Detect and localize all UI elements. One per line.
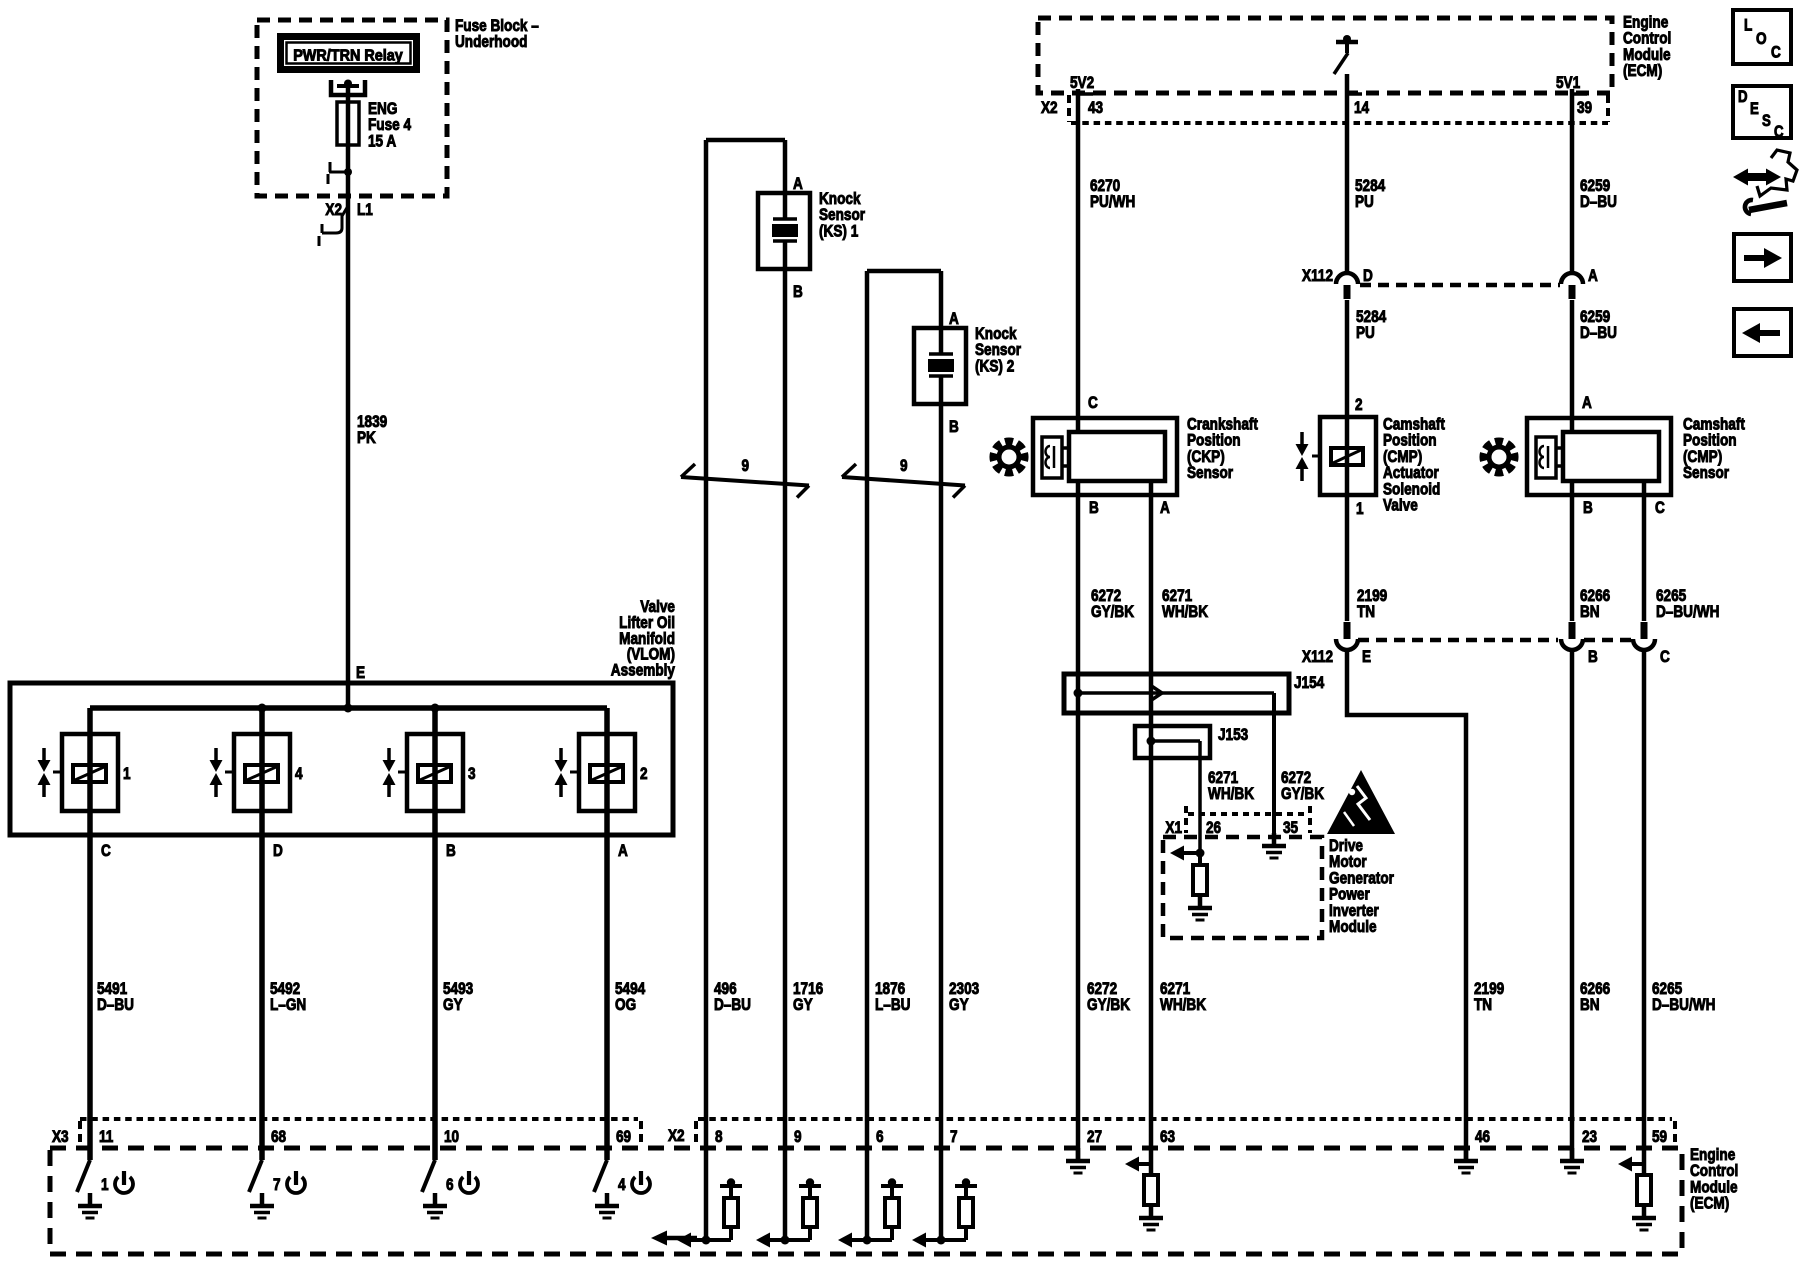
svg-text:PU/WH: PU/WH: [1090, 193, 1135, 212]
svg-text:26: 26: [1206, 819, 1221, 838]
svg-text:J154: J154: [1294, 674, 1325, 693]
svg-text:5V2: 5V2: [1070, 74, 1094, 93]
svg-text:Sensor: Sensor: [1683, 464, 1729, 483]
svg-text:9: 9: [900, 457, 908, 476]
svg-text:L–GN: L–GN: [270, 996, 306, 1015]
svg-text:10: 10: [444, 1128, 459, 1147]
svg-text:(KS) 1: (KS) 1: [819, 222, 859, 241]
svg-text:46: 46: [1475, 1128, 1490, 1147]
svg-text:C: C: [1660, 648, 1670, 667]
svg-text:B: B: [446, 842, 456, 861]
svg-text:C: C: [1774, 123, 1784, 142]
svg-text:BN: BN: [1580, 996, 1600, 1015]
svg-text:PWR/TRN Relay: PWR/TRN Relay: [293, 47, 403, 65]
svg-text:WH/BK: WH/BK: [1160, 996, 1206, 1015]
svg-text:Valve: Valve: [1383, 496, 1418, 515]
svg-text:C: C: [1655, 499, 1665, 518]
svg-text:OG: OG: [615, 996, 636, 1015]
svg-text:A: A: [1588, 267, 1598, 286]
svg-text:D–BU: D–BU: [714, 996, 751, 1015]
svg-text:GY/BK: GY/BK: [1087, 996, 1130, 1015]
svg-text:5V1: 5V1: [1556, 74, 1581, 93]
svg-text:14: 14: [1354, 99, 1370, 118]
svg-text:BN: BN: [1580, 603, 1600, 622]
svg-text:39: 39: [1577, 99, 1592, 118]
svg-text:GY/BK: GY/BK: [1091, 603, 1134, 622]
svg-text:PU: PU: [1356, 324, 1375, 343]
svg-text:35: 35: [1283, 819, 1299, 838]
svg-text:B: B: [1089, 499, 1099, 518]
svg-text:B: B: [1588, 648, 1598, 667]
svg-text:D–BU: D–BU: [1580, 324, 1617, 343]
svg-text:4: 4: [295, 765, 303, 784]
svg-text:A: A: [1160, 499, 1170, 518]
svg-text:(ECM): (ECM): [1690, 1194, 1729, 1213]
svg-text:J153: J153: [1218, 726, 1248, 745]
svg-text:S: S: [1762, 112, 1771, 131]
svg-text:Assembly: Assembly: [611, 661, 676, 680]
svg-text:GY: GY: [793, 996, 813, 1015]
svg-text:PK: PK: [357, 429, 376, 448]
svg-text:C: C: [101, 842, 111, 861]
svg-text:C: C: [1771, 43, 1781, 62]
svg-text:L: L: [1744, 16, 1752, 35]
svg-text:2: 2: [640, 765, 648, 784]
svg-text:A: A: [949, 310, 959, 329]
svg-text:27: 27: [1087, 1128, 1102, 1147]
svg-text:Module: Module: [1329, 918, 1377, 937]
svg-text:WH/BK: WH/BK: [1162, 603, 1208, 622]
svg-text:D: D: [273, 842, 283, 861]
svg-text:C: C: [1088, 394, 1098, 413]
svg-text:D–BU: D–BU: [97, 996, 134, 1015]
svg-text:E: E: [1362, 648, 1371, 667]
svg-text:4: 4: [618, 1176, 626, 1195]
svg-text:1: 1: [1356, 500, 1364, 519]
svg-text:69: 69: [616, 1128, 631, 1147]
svg-text:7: 7: [950, 1128, 958, 1147]
svg-text:E: E: [356, 664, 365, 683]
svg-text:O: O: [1756, 30, 1767, 49]
svg-text:X3: X3: [52, 1128, 69, 1147]
svg-text:L–BU: L–BU: [875, 996, 910, 1015]
svg-text:E: E: [1750, 100, 1759, 119]
svg-text:68: 68: [271, 1128, 287, 1147]
svg-text:GY: GY: [949, 996, 969, 1015]
svg-text:23: 23: [1582, 1128, 1597, 1147]
svg-text:A: A: [1582, 394, 1592, 413]
svg-text:63: 63: [1160, 1128, 1175, 1147]
svg-text:D–BU: D–BU: [1580, 193, 1617, 212]
svg-text:1: 1: [101, 1176, 109, 1195]
svg-text:A: A: [793, 175, 803, 194]
svg-text:GY: GY: [443, 996, 463, 1015]
svg-text:6: 6: [876, 1128, 884, 1147]
svg-text:B: B: [1583, 499, 1593, 518]
svg-text:(KS) 2: (KS) 2: [975, 357, 1014, 376]
svg-text:8: 8: [715, 1128, 723, 1147]
svg-text:D–BU/WH: D–BU/WH: [1652, 996, 1715, 1015]
svg-text:Underhood: Underhood: [455, 33, 527, 52]
svg-text:11: 11: [99, 1128, 114, 1147]
svg-text:X2: X2: [1041, 99, 1058, 118]
svg-text:X2: X2: [668, 1127, 685, 1146]
svg-text:(ECM): (ECM): [1623, 62, 1662, 81]
svg-text:D: D: [1738, 88, 1748, 107]
svg-text:X112: X112: [1302, 267, 1333, 286]
svg-text:6: 6: [446, 1176, 454, 1195]
svg-text:Sensor: Sensor: [1187, 464, 1233, 483]
svg-text:9: 9: [794, 1128, 802, 1147]
svg-text:15 A: 15 A: [368, 132, 396, 151]
svg-text:3: 3: [468, 765, 476, 784]
svg-text:TN: TN: [1474, 996, 1492, 1015]
svg-text:PU: PU: [1355, 193, 1374, 212]
svg-text:43: 43: [1088, 99, 1103, 118]
svg-text:X1: X1: [1165, 819, 1182, 838]
svg-text:L1: L1: [357, 201, 373, 220]
svg-text:D: D: [1363, 267, 1373, 286]
svg-text:X2: X2: [325, 201, 342, 220]
svg-text:2: 2: [1355, 396, 1363, 415]
svg-text:9: 9: [742, 457, 750, 476]
svg-text:7: 7: [273, 1176, 281, 1195]
svg-text:59: 59: [1652, 1128, 1667, 1147]
svg-text:TN: TN: [1357, 603, 1375, 622]
svg-text:GY/BK: GY/BK: [1281, 785, 1324, 804]
svg-text:B: B: [949, 418, 959, 437]
svg-text:B: B: [793, 283, 803, 302]
svg-text:A: A: [618, 842, 628, 861]
svg-text:X112: X112: [1302, 648, 1333, 667]
svg-text:1: 1: [123, 765, 131, 784]
svg-text:WH/BK: WH/BK: [1208, 785, 1254, 804]
svg-text:D–BU/WH: D–BU/WH: [1656, 603, 1719, 622]
